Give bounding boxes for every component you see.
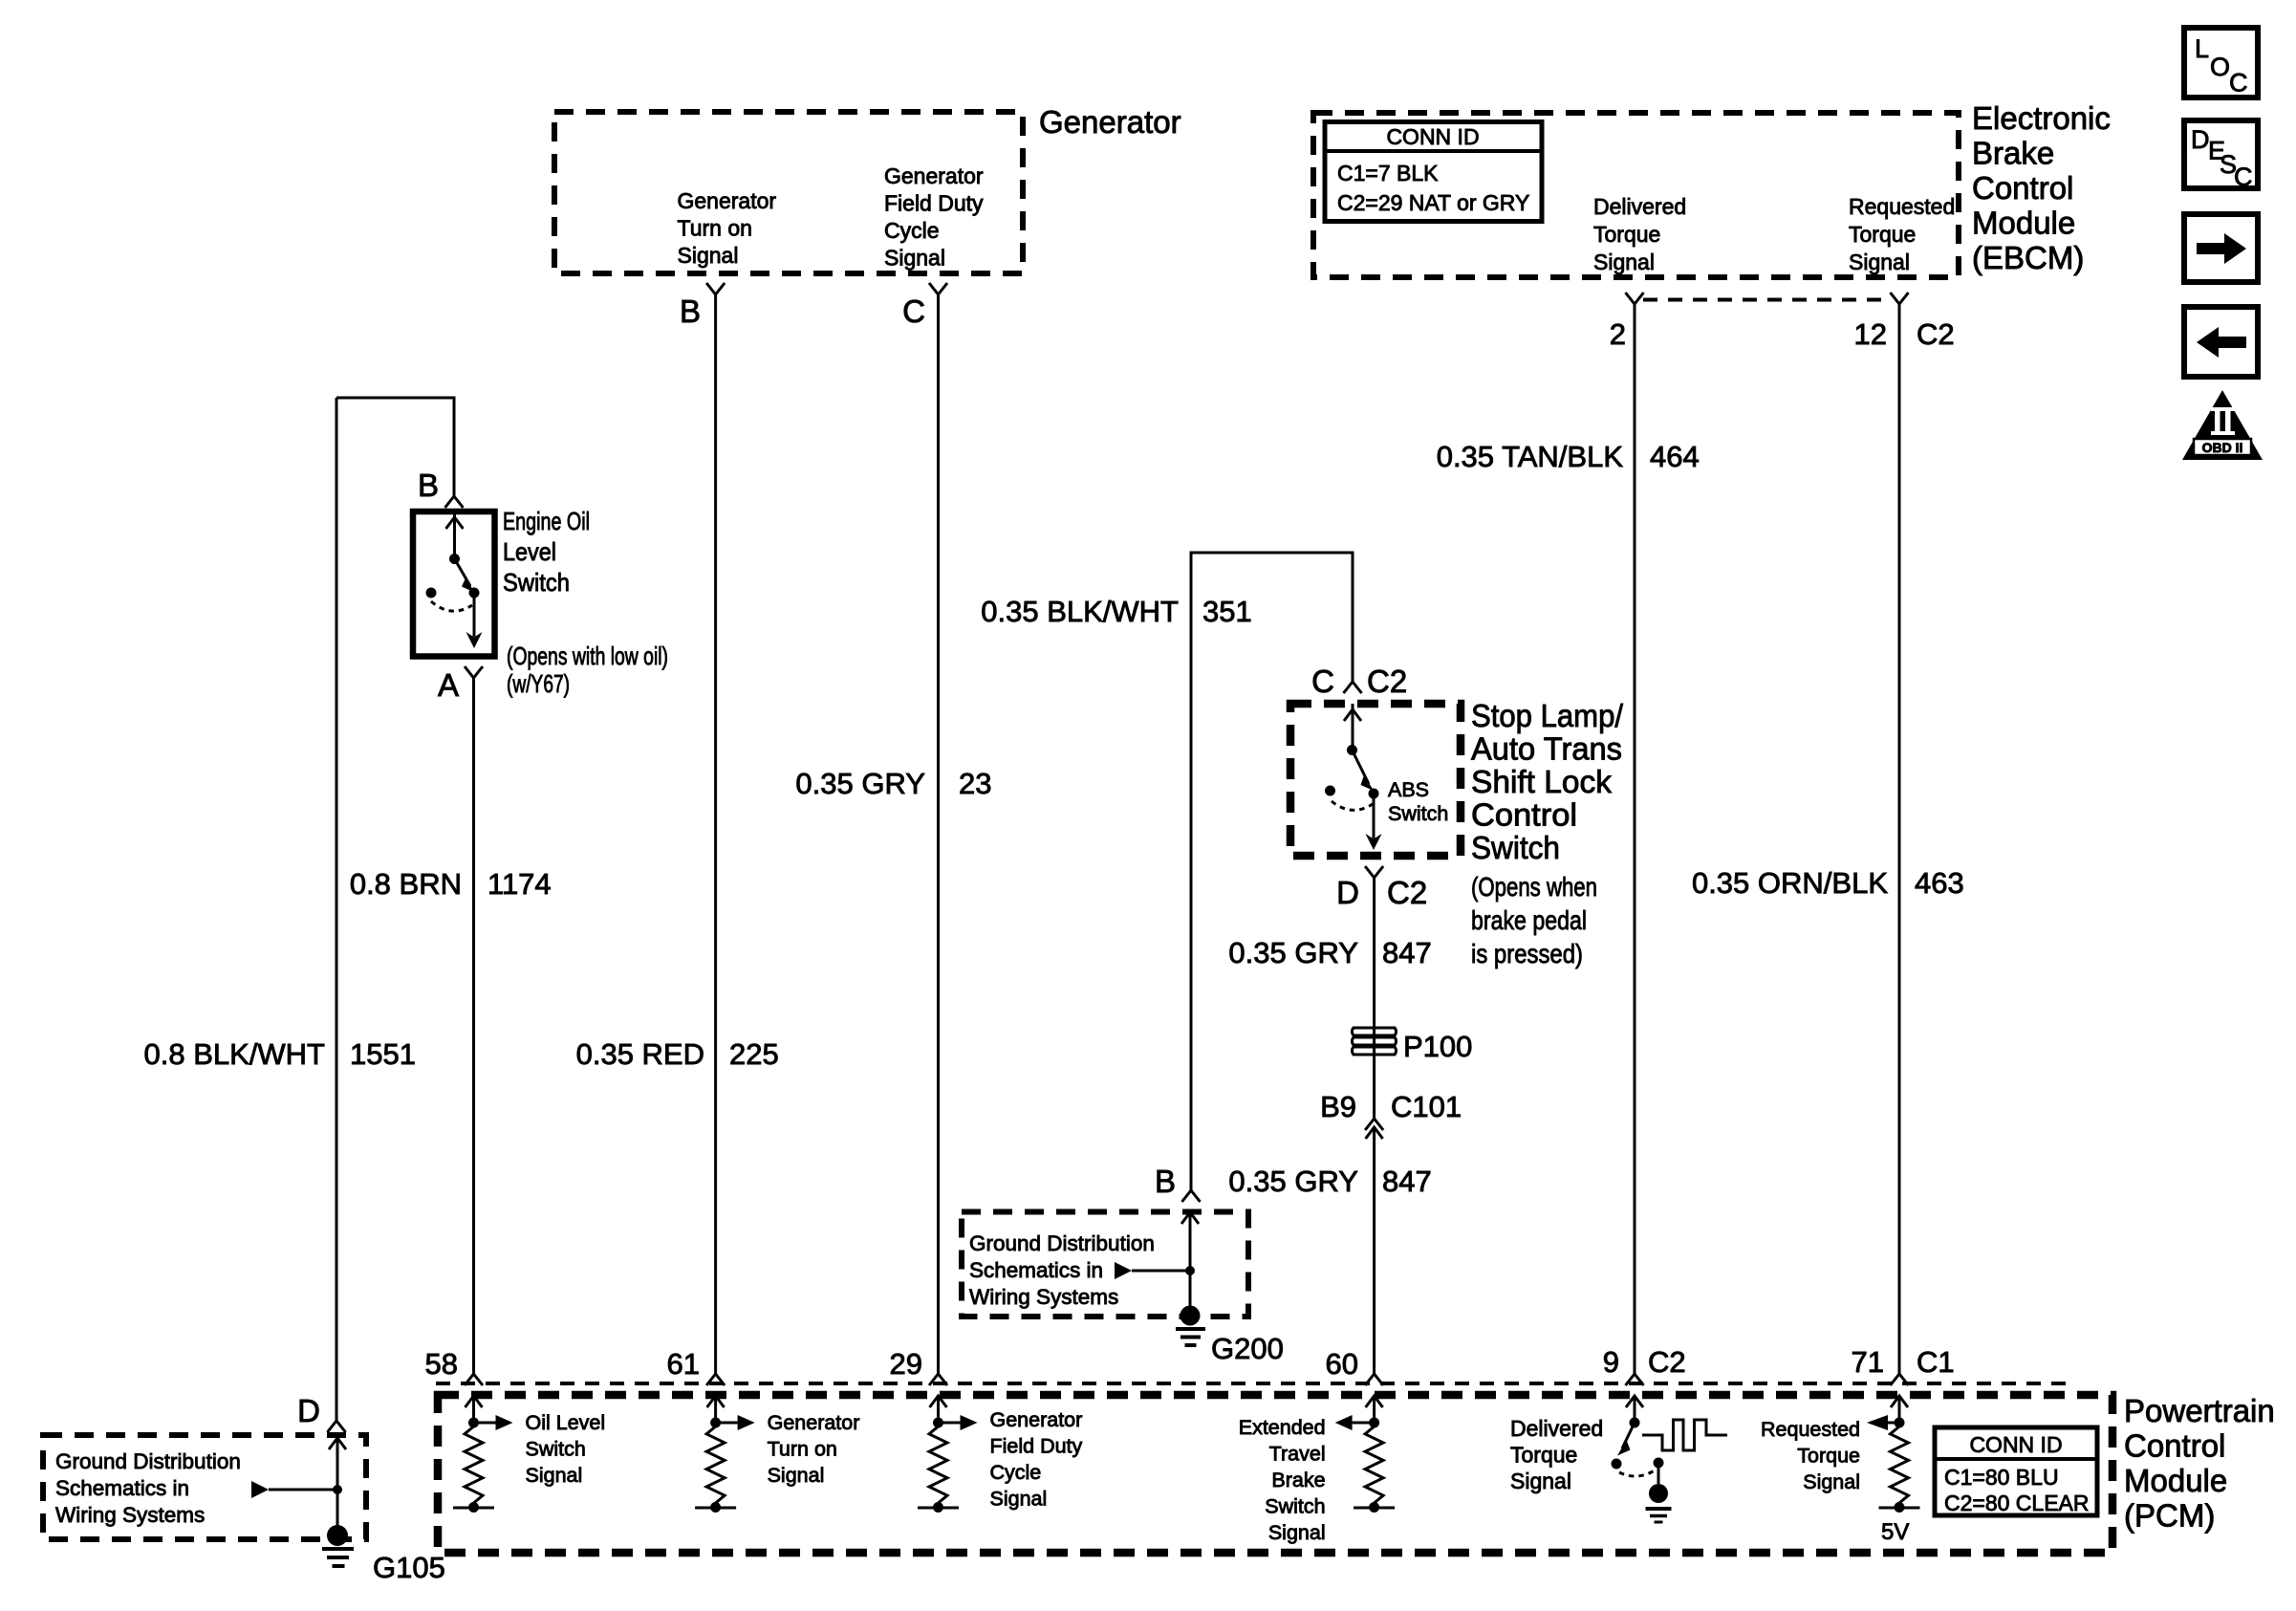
- svg-text:Signal: Signal: [1593, 250, 1655, 274]
- PCM pin 9 C2 connector: [1603, 1345, 1686, 1385]
- wire label 0.8 BRN 1174: [350, 867, 552, 901]
- svg-text:351: 351: [1202, 595, 1252, 628]
- ground G105: [322, 1525, 445, 1584]
- svg-text:B: B: [680, 294, 701, 329]
- wire 847 GRY from C101 to PCM pin 60: [1373, 1127, 1375, 1374]
- G200 B connector: [1155, 1164, 1201, 1202]
- oil switch pin A connector: [438, 666, 483, 703]
- svg-text:Signal: Signal: [526, 1464, 583, 1487]
- svg-text:60: 60: [1326, 1347, 1358, 1381]
- PCM extended travel brake switch signal resistor: [1239, 1396, 1395, 1544]
- generator pin B connector: [680, 283, 725, 329]
- svg-text:C1=7 BLK: C1=7 BLK: [1337, 161, 1439, 185]
- ABS switch top contact: [1344, 704, 1361, 755]
- svg-text:(Opens with low oil): (Opens with low oil): [507, 642, 668, 670]
- ground G200: [1176, 1306, 1284, 1366]
- EBCM delivered torque signal label: [1593, 194, 1686, 274]
- PCM connector dashed line: [436, 1382, 2069, 1385]
- svg-text:(EBCM): (EBCM): [1972, 240, 2084, 275]
- G105 off-page arrow: [251, 1481, 337, 1498]
- svg-text:B9: B9: [1320, 1090, 1356, 1123]
- PCM oil level switch signal resistor: [453, 1396, 605, 1513]
- wire 351 BLK/WHT from G200 up over to stop lamp switch C: [1191, 553, 1353, 1190]
- svg-text:847: 847: [1382, 936, 1432, 969]
- wire 23 GRY from generator C to PCM pin 29: [937, 294, 940, 1374]
- svg-text:Extended: Extended: [1239, 1416, 1326, 1439]
- svg-text:0.35 GRY: 0.35 GRY: [1228, 936, 1358, 969]
- svg-text:Delivered: Delivered: [1593, 194, 1686, 219]
- right arrow icon: [2184, 214, 2258, 282]
- svg-text:C: C: [902, 294, 925, 329]
- svg-text:Signal: Signal: [990, 1488, 1048, 1511]
- PCM delivered torque signal switch: [1612, 1396, 1672, 1522]
- svg-text:D: D: [1336, 875, 1359, 910]
- svg-text:0.35 ORN/BLK: 0.35 ORN/BLK: [1692, 866, 1888, 900]
- svg-text:C2=80 CLEAR: C2=80 CLEAR: [1944, 1491, 2090, 1515]
- svg-text:2: 2: [1610, 317, 1626, 351]
- svg-text:Module: Module: [2124, 1463, 2227, 1498]
- oil switch right contact to pin A with arrow: [466, 588, 483, 649]
- svg-text:P100: P100: [1403, 1030, 1472, 1063]
- svg-text:12: 12: [1854, 317, 1887, 351]
- EBCM C2 connector dashed line: [1643, 298, 1892, 302]
- svg-text:71: 71: [1852, 1345, 1884, 1379]
- svg-text:Signal: Signal: [1510, 1469, 1571, 1493]
- DESC icon: [2184, 120, 2258, 191]
- svg-text:B: B: [1155, 1164, 1176, 1199]
- svg-text:C2: C2: [1648, 1345, 1686, 1379]
- svg-text:C101: C101: [1391, 1090, 1462, 1123]
- ABS switch travel arc: [1332, 801, 1373, 810]
- wire label 0.35 RED 225: [576, 1037, 779, 1071]
- svg-text:is pressed): is pressed): [1471, 939, 1583, 969]
- svg-text:Stop Lamp/: Stop Lamp/: [1471, 698, 1624, 733]
- svg-text:Switch: Switch: [1471, 830, 1560, 865]
- PCM pin 61 connector: [667, 1347, 726, 1385]
- stop lamp switch pin C connector: [1311, 664, 1407, 699]
- G105 box label: [55, 1449, 241, 1527]
- ABS switch right contact down to D with arrow: [1366, 789, 1382, 851]
- svg-text:Wiring Systems: Wiring Systems: [969, 1285, 1118, 1309]
- EBCM pin 2 connector: [1610, 293, 1644, 351]
- inline connector C101 pin B9: [1320, 1090, 1462, 1139]
- svg-text:Torque: Torque: [1797, 1445, 1860, 1468]
- svg-text:OBD II: OBD II: [2202, 440, 2243, 455]
- svg-text:29: 29: [890, 1347, 922, 1381]
- svg-text:464: 464: [1650, 440, 1700, 473]
- svg-text:C2: C2: [1367, 664, 1407, 699]
- G105 ground distribution reference box: [43, 1435, 366, 1539]
- stop lamp switch note label: [1471, 872, 1597, 969]
- PCM requested torque signal label: [1761, 1418, 1860, 1493]
- stop lamp switch pin D connector: [1336, 866, 1427, 910]
- svg-text:Signal: Signal: [1849, 250, 1910, 274]
- EBCM component box: [1313, 113, 1959, 277]
- svg-text:Brake: Brake: [1972, 136, 2054, 171]
- svg-text:1551: 1551: [350, 1037, 416, 1071]
- svg-text:0.35 RED: 0.35 RED: [576, 1037, 704, 1071]
- svg-text:Brake: Brake: [1271, 1469, 1325, 1491]
- svg-text:Auto Trans: Auto Trans: [1471, 731, 1622, 767]
- svg-text:Field Duty: Field Duty: [884, 191, 984, 216]
- svg-text:Signal: Signal: [1268, 1521, 1326, 1544]
- svg-text:C1=80 BLU: C1=80 BLU: [1944, 1465, 2059, 1490]
- svg-text:Generator: Generator: [768, 1411, 860, 1434]
- svg-text:Requested: Requested: [1761, 1418, 1860, 1441]
- LOC icon: [2184, 28, 2258, 98]
- left arrow icon: [2184, 307, 2258, 377]
- PCM CONN ID table: [1935, 1427, 2097, 1515]
- svg-text:Delivered: Delivered: [1510, 1416, 1603, 1441]
- oil switch movable arm: [455, 559, 475, 593]
- oil switch left contact: [426, 588, 437, 599]
- svg-text:brake pedal: brake pedal: [1471, 905, 1587, 935]
- oil switch travel arc: [431, 601, 472, 611]
- svg-text:Switch: Switch: [1388, 802, 1448, 825]
- svg-text:Generator: Generator: [678, 188, 777, 213]
- svg-text:C1: C1: [1917, 1345, 1955, 1379]
- svg-text:Electronic: Electronic: [1972, 100, 2111, 136]
- svg-text:Torque: Torque: [1510, 1443, 1577, 1468]
- svg-text:Switch: Switch: [1265, 1495, 1325, 1518]
- wire label 0.35 TAN/BLK 464: [1437, 440, 1700, 473]
- svg-text:Level: Level: [503, 537, 556, 566]
- svg-text:(w/Y67): (w/Y67): [507, 669, 570, 698]
- svg-text:0.35 TAN/BLK: 0.35 TAN/BLK: [1437, 440, 1624, 473]
- svg-text:0.35 GRY: 0.35 GRY: [795, 767, 925, 800]
- svg-text:58: 58: [425, 1347, 458, 1381]
- svg-text:9: 9: [1603, 1345, 1619, 1379]
- wire 847 GRY from stop lamp D to C101: [1373, 878, 1375, 1119]
- svg-text:ABS: ABS: [1388, 778, 1429, 801]
- wire label 0.8 BLK/WHT 1551: [144, 1037, 416, 1071]
- svg-text:225: 225: [729, 1037, 779, 1071]
- EBCM title label: [1972, 100, 2111, 275]
- wire label 0.35 GRY 847 lower: [1228, 1165, 1431, 1198]
- svg-text:5V: 5V: [1881, 1519, 1909, 1545]
- svg-text:847: 847: [1382, 1165, 1432, 1198]
- svg-text:Switch: Switch: [526, 1438, 586, 1461]
- generator turn on signal label: [678, 188, 777, 268]
- svg-text:Torque: Torque: [1849, 222, 1916, 247]
- generator field duty cycle signal label: [884, 163, 984, 271]
- PCM generator field duty cycle signal resistor: [918, 1396, 1083, 1513]
- PCM requested torque signal resistor: [1867, 1396, 1920, 1545]
- svg-text:Requested: Requested: [1849, 194, 1955, 219]
- pass-through grommet P100: [1352, 1028, 1472, 1063]
- svg-text:0.35 GRY: 0.35 GRY: [1228, 1165, 1358, 1198]
- wire loop from ground branch to oil level switch pin B: [336, 398, 454, 496]
- PCM generator turn on signal resistor: [695, 1396, 859, 1513]
- oil switch name label: [503, 507, 668, 698]
- svg-text:Control: Control: [1972, 170, 2073, 206]
- svg-text:Signal: Signal: [678, 243, 739, 268]
- svg-text:Schematics in: Schematics in: [55, 1476, 189, 1500]
- svg-text:L: L: [2195, 34, 2209, 63]
- wire 464 TAN/BLK from EBCM pin 2 to PCM pin 9: [1634, 304, 1636, 1374]
- svg-text:Control: Control: [1471, 797, 1577, 833]
- svg-text:Signal: Signal: [884, 246, 945, 271]
- powertrain control module box: [438, 1395, 2112, 1553]
- svg-text:C2: C2: [1387, 875, 1427, 910]
- svg-text:Ground Distribution: Ground Distribution: [969, 1231, 1155, 1255]
- PCM pin 58 connector: [425, 1347, 483, 1385]
- svg-text:Switch: Switch: [503, 568, 570, 597]
- svg-text:Torque: Torque: [1593, 222, 1660, 247]
- EBCM requested torque signal label: [1849, 194, 1955, 274]
- svg-text:A: A: [438, 667, 459, 703]
- svg-text:Control: Control: [2124, 1428, 2225, 1464]
- generator component box: [554, 112, 1023, 273]
- svg-text:Generator: Generator: [884, 163, 984, 188]
- svg-text:C2: C2: [1917, 317, 1955, 351]
- svg-text:Field Duty: Field Duty: [990, 1435, 1083, 1458]
- ABS switch left contact: [1325, 786, 1335, 796]
- svg-text:(Opens when: (Opens when: [1471, 872, 1597, 902]
- svg-text:61: 61: [667, 1347, 700, 1381]
- svg-text:Cycle: Cycle: [990, 1461, 1042, 1484]
- svg-text:23: 23: [959, 767, 991, 800]
- oil switch pin B connector: [418, 468, 464, 508]
- svg-text:Oil Level: Oil Level: [526, 1411, 606, 1434]
- svg-text:Turn on: Turn on: [678, 216, 752, 241]
- wire label 0.35 BLK/WHT 351: [981, 595, 1251, 628]
- svg-text:Wiring Systems: Wiring Systems: [55, 1503, 205, 1527]
- svg-text:C: C: [1311, 664, 1334, 699]
- svg-text:0.35 BLK/WHT: 0.35 BLK/WHT: [981, 595, 1179, 628]
- svg-text:Cycle: Cycle: [884, 218, 940, 243]
- G200 ground distribution reference box: [962, 1212, 1248, 1317]
- oil switch internal top contact: [446, 512, 464, 564]
- svg-text:0.8 BRN: 0.8 BRN: [350, 867, 462, 901]
- svg-text:Module: Module: [1972, 206, 2075, 241]
- OBD II icon: [2182, 390, 2263, 460]
- svg-text:C: C: [2229, 69, 2248, 98]
- PCM title label: [2124, 1393, 2275, 1534]
- EBCM CONN ID table: [1325, 122, 1542, 222]
- svg-text:Generator: Generator: [1039, 104, 1181, 140]
- PCM delivered torque waveform: [1642, 1420, 1727, 1450]
- svg-text:Generator: Generator: [990, 1408, 1083, 1431]
- wire label 0.35 ORN/BLK 463: [1692, 866, 1964, 900]
- ABS switch label: [1388, 778, 1448, 825]
- stop lamp auto trans shift lock control switch box: [1290, 704, 1461, 856]
- G200 internal wire with junction: [1181, 1212, 1199, 1308]
- svg-text:G200: G200: [1211, 1332, 1284, 1365]
- G105 internal wire with junction: [329, 1438, 346, 1528]
- EBCM pin 12 connector: [1854, 293, 1955, 351]
- wire 1174 BRN from oil switch A to PCM pin 58: [472, 678, 475, 1374]
- ground wire pin D connector: [297, 1393, 345, 1432]
- svg-text:0.8 BLK/WHT: 0.8 BLK/WHT: [144, 1037, 326, 1071]
- svg-text:D: D: [297, 1393, 320, 1428]
- svg-text:463: 463: [1915, 866, 1964, 900]
- svg-text:C2=29 NAT or GRY: C2=29 NAT or GRY: [1337, 190, 1529, 215]
- svg-text:CONN ID: CONN ID: [1386, 124, 1479, 149]
- wire label 0.35 GRY 23: [795, 767, 991, 800]
- engine oil level switch S40 box: [413, 512, 495, 657]
- svg-text:Ground Distribution: Ground Distribution: [55, 1449, 241, 1473]
- stop lamp switch title label: [1471, 698, 1624, 865]
- wire 463 ORN/BLK from EBCM pin 12 to PCM pin 71: [1898, 304, 1901, 1374]
- wire 225 RED from generator B to PCM pin 61: [714, 294, 717, 1374]
- svg-text:Turn on: Turn on: [768, 1438, 837, 1461]
- svg-text:B: B: [418, 468, 439, 503]
- generator pin C connector: [902, 283, 947, 329]
- PCM delivered torque signal label: [1510, 1416, 1603, 1493]
- svg-text:Powertrain: Powertrain: [2124, 1393, 2275, 1428]
- svg-text:O: O: [2210, 53, 2230, 81]
- wire label 0.35 GRY 847 upper: [1228, 936, 1431, 969]
- svg-text:Shift Lock: Shift Lock: [1471, 764, 1612, 799]
- ABS switch movable arm: [1353, 751, 1375, 792]
- G200 off-page arrow: [1115, 1262, 1190, 1279]
- svg-text:Schematics in: Schematics in: [969, 1258, 1103, 1282]
- wire 1551 BLK/WHT to G105: [336, 398, 338, 1421]
- PCM pin 60 connector: [1326, 1347, 1384, 1385]
- svg-text:1174: 1174: [487, 867, 552, 901]
- svg-text:Engine Oil: Engine Oil: [503, 507, 590, 535]
- svg-text:C: C: [2234, 163, 2253, 191]
- svg-text:CONN ID: CONN ID: [1969, 1432, 2062, 1457]
- PCM pin 29 connector: [890, 1347, 947, 1385]
- svg-text:G105: G105: [373, 1551, 445, 1584]
- svg-text:Travel: Travel: [1269, 1443, 1326, 1466]
- PCM pin 71 C1 connector: [1852, 1345, 1955, 1385]
- svg-text:Signal: Signal: [1803, 1470, 1860, 1493]
- svg-text:(PCM): (PCM): [2124, 1498, 2215, 1534]
- svg-text:D: D: [2191, 125, 2210, 154]
- G200 box label: [969, 1231, 1155, 1309]
- svg-text:Signal: Signal: [768, 1464, 825, 1487]
